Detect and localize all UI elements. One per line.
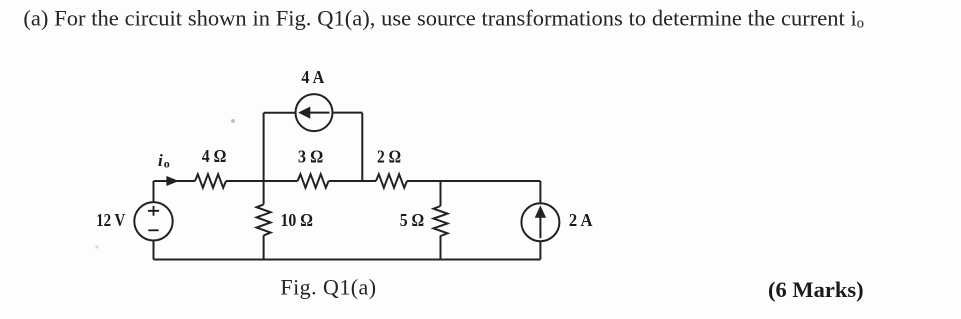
svg-text:i: i bbox=[158, 151, 163, 170]
arrowhead of 4A source (points left) bbox=[299, 107, 310, 118]
resistor R=3ohm (horizontal zigzag) bbox=[298, 174, 329, 188]
wire: main rail between 4ohm and 3ohm (node at 10-ohm branch) bbox=[226, 180, 298, 182]
wire: 10-ohm branch bottom bbox=[263, 235, 265, 259]
svg-text:Fig. Q1(a): Fig. Q1(a) bbox=[280, 274, 376, 299]
wire: 5-ohm branch top bbox=[440, 181, 442, 206]
svg-text:10 Ω: 10 Ω bbox=[281, 210, 314, 230]
scan artifact dot bbox=[231, 119, 235, 123]
wire: left leg of 4A loop and 10-ohm branch top bbox=[263, 113, 265, 205]
svg-text:3 Ω: 3 Ω bbox=[298, 147, 323, 167]
minus terminal mark bbox=[148, 229, 158, 231]
voltage source V=12V (left, circle with plus-minus) bbox=[134, 181, 172, 260]
resistor R=10ohm (vertical zigzag) bbox=[257, 204, 271, 235]
svg-text:12 V: 12 V bbox=[96, 210, 126, 230]
resistor R=4ohm (horizontal zigzag) bbox=[195, 174, 226, 188]
svg-text:2 A: 2 A bbox=[569, 210, 593, 230]
svg-text:(6 Marks): (6 Marks) bbox=[768, 277, 864, 302]
svg-text:4 Ω: 4 Ω bbox=[202, 146, 227, 166]
wire: 5-ohm branch bottom bbox=[440, 236, 442, 260]
current arrow io on wire bbox=[167, 177, 178, 186]
wire: main top rail, left segment (with io arrow) bbox=[154, 180, 196, 182]
resistor R=2ohm (horizontal zigzag) bbox=[376, 174, 407, 188]
resistor R=5ohm (vertical zigzag) bbox=[434, 206, 448, 236]
wire: bottom rail bbox=[154, 259, 541, 261]
scan artifact smudge bbox=[95, 245, 98, 248]
svg-text:5 Ω: 5 Ω bbox=[400, 210, 425, 230]
svg-text:(a) For the circuit shown in F: (a) For the circuit shown in Fig. Q1(a),… bbox=[23, 5, 864, 31]
svg-text:4 A: 4 A bbox=[301, 67, 324, 87]
svg-text:2 Ω: 2 Ω bbox=[377, 147, 401, 167]
current source I=4A (top loop, arrow pointing left) bbox=[264, 94, 363, 181]
arrowhead of 2A source (points up) bbox=[536, 207, 546, 218]
current source I=2A (right, arrow pointing up) bbox=[521, 181, 559, 260]
wire: main rail between 3ohm and 2ohm (node at 4A loop right leg) bbox=[329, 180, 376, 182]
plus terminal mark bbox=[148, 206, 159, 216]
wire: main rail right of 2ohm to right corner bbox=[407, 180, 540, 182]
svg-text:o: o bbox=[164, 157, 170, 171]
